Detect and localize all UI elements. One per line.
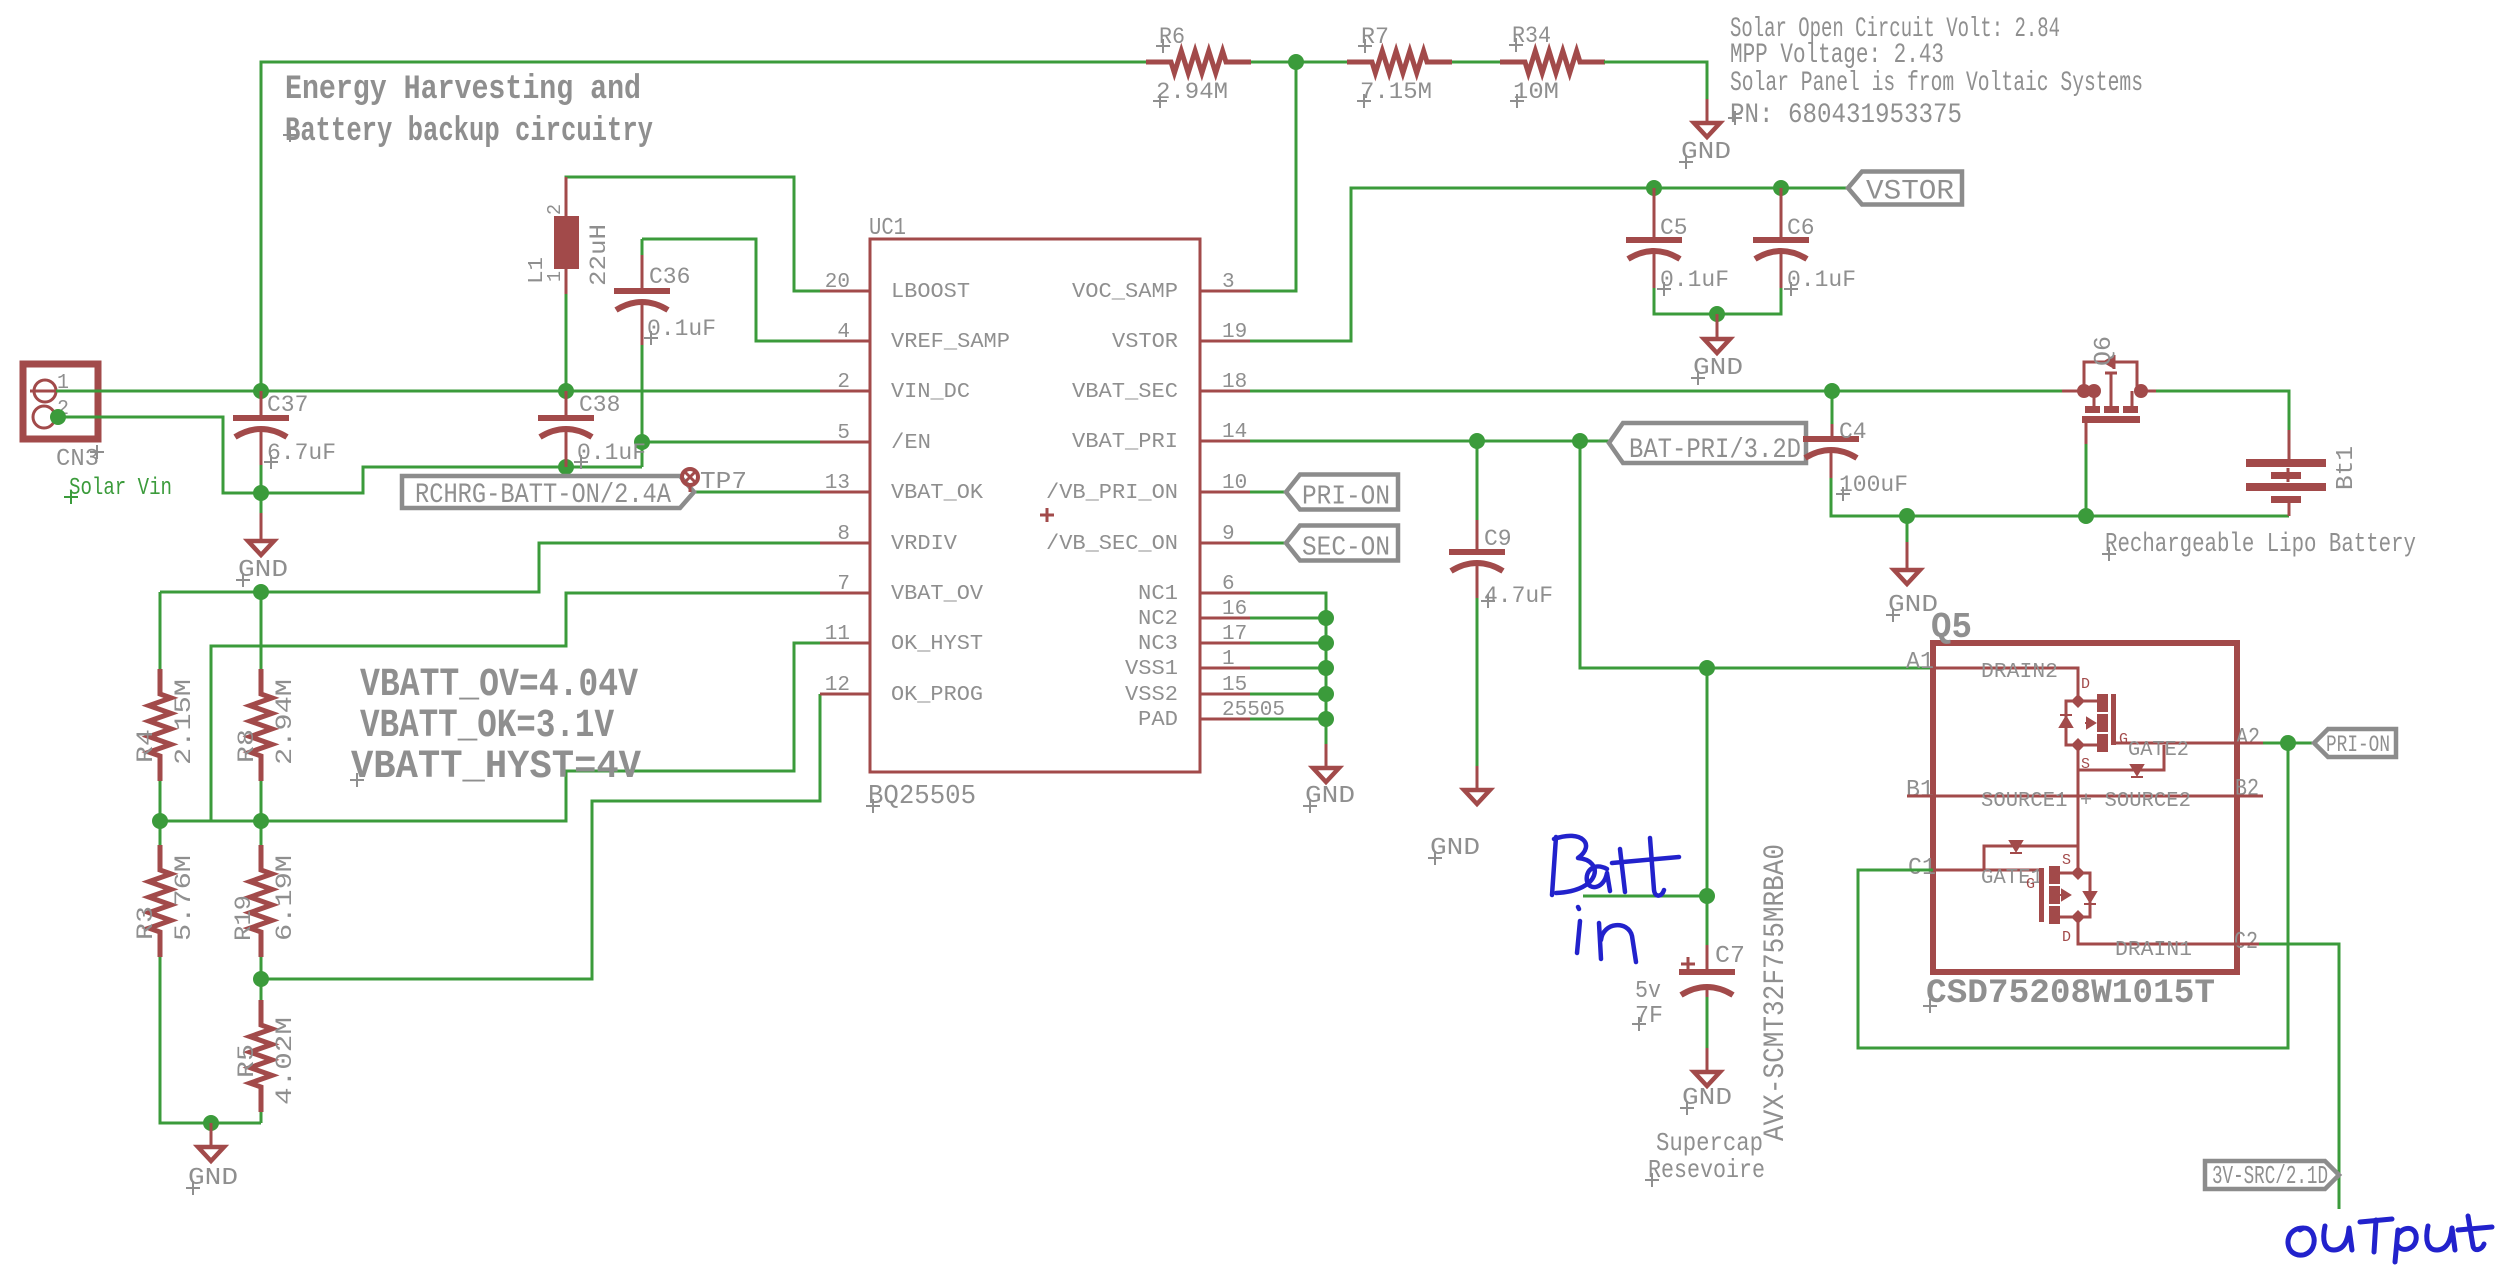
svg-text:VBAT_SEC: VBAT_SEC [1072, 381, 1178, 404]
ic U1 BQ25505 body [870, 239, 1200, 772]
capacitor C9 [1476, 441, 1479, 549]
wire DRAIN1 out [2237, 943, 2259, 946]
wire VBAT_OK [683, 491, 820, 494]
wire C5-C6 bottom [1654, 288, 1781, 314]
capacitor C7 supercap [1706, 945, 1709, 969]
pin 6 NC1 [1200, 592, 1250, 595]
junction R19/R5 [253, 971, 269, 987]
svg-text:VSS1: VSS1 [1125, 658, 1178, 681]
svg-text:VOC_SAMP: VOC_SAMP [1072, 281, 1178, 304]
pin 14 VBAT_PRI [1200, 440, 1250, 443]
ground GND top right [1694, 123, 1720, 137]
junction C37 top [253, 383, 269, 399]
svg-text:1: 1 [544, 271, 566, 282]
svg-text:GND: GND [188, 1165, 238, 1192]
pin 4 VREF_SAMP [820, 340, 870, 343]
wire VSTOR net [1250, 188, 1848, 341]
capacitor C4 [1831, 391, 1834, 436]
svg-text:B2: B2 [2235, 776, 2259, 803]
svg-text:VRDIV: VRDIV [891, 533, 957, 556]
svg-text:2.94M: 2.94M [1156, 79, 1228, 105]
svg-text:16: 16 [1222, 598, 1247, 621]
svg-text:Battery backup circuitry: Battery backup circuitry [285, 113, 653, 151]
svg-text:NC2: NC2 [1138, 608, 1178, 631]
net label PRI-ON [1286, 475, 1398, 510]
junction divider left [152, 813, 168, 829]
wire VRDIV route [160, 543, 820, 592]
pin 12 OK_PROG [820, 693, 870, 696]
capacitor C36 [641, 239, 644, 257]
svg-text:/VB_SEC_ON: /VB_SEC_ON [1046, 533, 1178, 556]
wire VBAT_OV route [211, 593, 820, 821]
svg-text:NC1: NC1 [1138, 583, 1178, 606]
wire supercap col [1706, 668, 1709, 945]
svg-text:PRI-ON: PRI-ON [2326, 732, 2390, 758]
junction C5C6 gnd [1709, 306, 1725, 322]
pin 17 NC3 [1200, 642, 1250, 645]
svg-text:14: 14 [1222, 421, 1247, 444]
svg-text:PRI-ON: PRI-ON [1302, 483, 1390, 513]
svg-text:4.7uF: 4.7uF [1484, 583, 1553, 609]
wire solar net top [261, 62, 1146, 391]
net label 3V-SRC/2.1D [2205, 1161, 2339, 1189]
svg-text:13: 13 [825, 472, 850, 495]
wire solar- run [58, 417, 642, 493]
svg-text:3: 3 [1222, 271, 1235, 294]
handwriting in [1577, 907, 1636, 962]
svg-text:VSTOR: VSTOR [1112, 331, 1178, 354]
transistor Q5 fet1 bottom [1933, 869, 2039, 872]
junction bottom gnd node [203, 1115, 219, 1131]
svg-text:SEC-ON: SEC-ON [1302, 534, 1390, 564]
capacitor C38 [565, 391, 568, 415]
svg-text:C5: C5 [1660, 215, 1688, 241]
svg-text:10: 10 [1222, 472, 1247, 495]
svg-text:C7: C7 [1715, 943, 1745, 970]
inductor L1 [565, 177, 568, 216]
wire R34 to gnd corner [1604, 62, 1707, 101]
handwriting output [2288, 1216, 2492, 1262]
svg-text:8: 8 [837, 523, 850, 546]
svg-text:22uH: 22uH [586, 224, 612, 286]
svg-text:D: D [2062, 929, 2071, 946]
junction gnd mid [1899, 508, 1915, 524]
svg-text:9: 9 [1222, 523, 1235, 546]
svg-text:12: 12 [825, 674, 850, 697]
svg-text:R7: R7 [1361, 24, 1389, 50]
junction node R6/R7/VOC_SAMP [1288, 54, 1304, 70]
svg-text:CSD75208W1015T: CSD75208W1015T [1926, 975, 2215, 1013]
wire Q6 to battery [2156, 391, 2289, 432]
junction C6 top [1773, 180, 1789, 196]
wire R3 bottom [160, 957, 261, 1123]
net label BAT-PRI/3.2D [1609, 423, 1806, 463]
wire VB_PRI_ON [1250, 491, 1286, 494]
svg-text:G: G [2026, 876, 2035, 893]
wire R4 bottom [159, 781, 162, 821]
ground GND mid right [1894, 570, 1920, 584]
svg-text:5.76M: 5.76M [171, 855, 197, 941]
svg-text:OK_HYST: OK_HYST [891, 633, 983, 656]
svg-text:GND: GND [1682, 1085, 1732, 1112]
svg-text:GND: GND [1681, 139, 1731, 166]
svg-text:2: 2 [544, 204, 566, 215]
resistor R6 [1146, 51, 1251, 73]
svg-text:BAT-PRI/3.2D: BAT-PRI/3.2D [1629, 435, 1801, 466]
svg-text:MPP Voltage: 2.43: MPP Voltage: 2.43 [1730, 40, 1944, 71]
svg-text:VIN_DC: VIN_DC [891, 381, 970, 404]
pin 1 VSS1 [1200, 667, 1250, 670]
ground GND under C7 [1694, 1072, 1720, 1086]
svg-text:UC1: UC1 [869, 215, 906, 242]
svg-text:/EN: /EN [891, 432, 931, 455]
resistor R19 [260, 821, 263, 845]
svg-text:NC3: NC3 [1138, 633, 1178, 656]
svg-text:6.19M: 6.19M [272, 855, 298, 941]
testpoint TP7 [689, 484, 692, 492]
svg-text:VBATT_OK=3.1V: VBATT_OK=3.1V [360, 704, 614, 749]
svg-text:AVX-SCMT32F755MRBA0: AVX-SCMT32F755MRBA0 [1759, 844, 1793, 1141]
svg-text:Resevoire: Resevoire [1648, 1155, 1765, 1185]
svg-text:4.02M: 4.02M [272, 1017, 298, 1105]
resistor R4 [149, 669, 171, 781]
wire C4 bottom run [1831, 478, 2289, 516]
capacitor C6 [1780, 188, 1783, 237]
svg-text:VBAT_PRI: VBAT_PRI [1072, 431, 1178, 454]
wire NC2 [1250, 617, 1326, 620]
gnd stub top right [1706, 99, 1709, 123]
transistor Q6 [2062, 390, 2078, 393]
wire R4 col [159, 592, 162, 669]
pin 5 /EN [820, 441, 870, 444]
wire R8 bottom [260, 781, 263, 821]
svg-text:S: S [2062, 852, 2071, 869]
svg-text:C37: C37 [267, 392, 308, 418]
wire SOURCE row [1907, 795, 2263, 798]
resistor R8 [250, 669, 272, 781]
wire VSS2 [1250, 693, 1326, 696]
wire C7 bottom [1706, 997, 1709, 1048]
junction C37 bottom [253, 485, 269, 501]
svg-text:15: 15 [1222, 674, 1247, 697]
wire VOC_SAMP [1250, 62, 1296, 291]
pin A2 stub [2237, 742, 2263, 745]
svg-text:C9: C9 [1484, 526, 1512, 552]
wire R8 col [260, 592, 263, 669]
ground GND under C9 [1476, 766, 1479, 790]
junction BAT-PRI branch [1572, 433, 1588, 449]
junction NC3 [1318, 635, 1334, 651]
junction C38 bottom [558, 459, 574, 475]
wire R19 bottom [260, 957, 263, 979]
svg-text:D: D [2081, 676, 2090, 693]
junction EN node [634, 434, 650, 450]
connector CN3 [23, 364, 98, 439]
svg-text:R6: R6 [1159, 24, 1185, 50]
wire VBAT_PRI [1250, 440, 1609, 443]
wire NC3 [1250, 642, 1326, 645]
svg-text:B1: B1 [1906, 777, 1934, 804]
wire BAT-PRI to Q5 [1580, 441, 1933, 668]
svg-text:RCHRG-BATT-ON/2.4A: RCHRG-BATT-ON/2.4A [415, 480, 671, 511]
wire L1 top loop [566, 177, 820, 291]
svg-text:DRAIN1: DRAIN1 [2115, 939, 2192, 962]
svg-text:Bt1: Bt1 [2333, 446, 2360, 490]
pin 19 VSTOR [1200, 340, 1250, 343]
junction C9 top [1469, 433, 1485, 449]
pin 10 /VB_PRI_ON [1200, 491, 1250, 494]
svg-text:GND: GND [1430, 835, 1480, 862]
junction supercap branch [1699, 660, 1715, 676]
handwriting Batt [1552, 836, 1679, 896]
wire C36 bottom [641, 345, 644, 442]
svg-text:VSTOR: VSTOR [1866, 177, 1954, 208]
wire R5 bottom [260, 1112, 263, 1123]
pin 25505 PAD [1200, 718, 1250, 721]
pin 13 VBAT_OK [820, 491, 870, 494]
svg-text:GATE2: GATE2 [2128, 739, 2189, 762]
resistor R34 [1500, 51, 1605, 73]
svg-text:17: 17 [1222, 623, 1247, 646]
svg-text:10M: 10M [1513, 79, 1559, 105]
svg-text:19: 19 [1222, 321, 1247, 344]
svg-text:7F: 7F [1635, 1003, 1663, 1030]
svg-text:VBATT_HYST=4V: VBATT_HYST=4V [351, 745, 641, 790]
junction C5 top [1646, 180, 1662, 196]
junction C38 top [558, 383, 574, 399]
junction CN3 pin2 [50, 409, 66, 425]
junction C4 top [1824, 383, 1840, 399]
wire VB_SEC_ON [1250, 542, 1286, 545]
svg-text:C6: C6 [1787, 215, 1815, 241]
net label SEC-ON [1286, 526, 1398, 561]
svg-text:7: 7 [837, 573, 850, 596]
svg-text:A1: A1 [1906, 649, 1934, 676]
resistor R5 [260, 979, 263, 1000]
junction VSS2 [1318, 686, 1334, 702]
svg-text:2.15M: 2.15M [171, 679, 197, 765]
net label RCHRG-BATT-ON/2.4A [402, 476, 694, 508]
svg-text:Solar Panel is from Voltaic Sy: Solar Panel is from Voltaic Systems [1730, 68, 2143, 99]
svg-text:PAD: PAD [1138, 709, 1178, 732]
label battery [2102, 547, 2116, 561]
pin 15 VSS2 [1200, 693, 1250, 696]
svg-text:G: G [2119, 731, 2128, 748]
svg-text:R8: R8 [234, 729, 260, 763]
svg-text:/VB_PRI_ON: /VB_PRI_ON [1046, 482, 1178, 505]
wire VIN_DC net [56, 390, 820, 393]
junction PAD [1318, 711, 1334, 727]
wire VSS1 [1250, 667, 1326, 670]
wire OK_HYST route [160, 643, 820, 821]
wire C36 top loop [642, 239, 820, 341]
svg-text:SOURCE1 + SOURCE2: SOURCE1 + SOURCE2 [1981, 790, 2191, 813]
svg-text:R19: R19 [231, 895, 257, 941]
svg-text:VBAT_OV: VBAT_OV [891, 583, 983, 606]
svg-text:GND: GND [238, 557, 288, 584]
svg-text:VREF_SAMP: VREF_SAMP [891, 331, 1010, 354]
capacitor C5 [1653, 188, 1656, 237]
wire R7-R34 [1452, 61, 1500, 64]
svg-text:Solar Vin: Solar Vin [69, 475, 172, 502]
svg-text:18: 18 [1222, 371, 1247, 394]
svg-text:Q5: Q5 [1931, 607, 1972, 648]
svg-text:LBOOST: LBOOST [891, 281, 970, 304]
svg-text:20: 20 [825, 271, 850, 294]
pin 8 VRDIV [820, 542, 870, 545]
ground GND under PAD [1313, 768, 1339, 782]
svg-text:GND: GND [1305, 783, 1355, 810]
junction batt-in [1699, 888, 1715, 904]
svg-text:6: 6 [1222, 573, 1235, 596]
pin B1 stub [1907, 795, 1933, 798]
svg-text:DRAIN2: DRAIN2 [1981, 661, 2058, 684]
svg-text:R5: R5 [234, 1044, 260, 1078]
svg-text:Energy Harvesting and: Energy Harvesting and [285, 71, 641, 109]
svg-text:Rechargeable Lipo Battery: Rechargeable Lipo Battery [2105, 530, 2416, 560]
svg-text:5: 5 [837, 422, 850, 445]
wire gate loop [1858, 743, 2288, 1048]
svg-text:VSS2: VSS2 [1125, 684, 1178, 707]
gnd stub mid [1906, 516, 1909, 544]
svg-text:VBAT_OK: VBAT_OK [891, 482, 983, 505]
svg-text:2.94M: 2.94M [272, 679, 298, 765]
svg-text:C4: C4 [1839, 419, 1867, 445]
pin 3 VOC_SAMP [1200, 290, 1250, 293]
ic Q5 body [1933, 643, 2237, 972]
resistor R3 [159, 821, 162, 845]
junction NC2 [1318, 610, 1334, 626]
wire EN riser [642, 442, 820, 467]
svg-text:7.15M: 7.15M [1360, 79, 1432, 105]
net label VSTOR [1848, 172, 1962, 205]
pin 18 VBAT_SEC [1200, 390, 1250, 393]
svg-text:C36: C36 [649, 264, 690, 290]
junction PRI-ON loop [2280, 735, 2296, 751]
ground GND under C37 [248, 541, 274, 555]
ground GND under C5 C6 [1704, 339, 1730, 353]
wire A2 to PRI-ON [2263, 742, 2312, 745]
svg-text:1: 1 [1222, 648, 1235, 671]
gnd stub C5C6 [1716, 314, 1719, 339]
svg-text:R4: R4 [133, 729, 159, 763]
wire C38 bottom [565, 437, 568, 467]
svg-text:OK_PROG: OK_PROG [891, 684, 983, 707]
junction R8 top [253, 584, 269, 600]
pin 2 VIN_DC [820, 390, 870, 393]
wire C9 bottom [1476, 598, 1479, 790]
capacitor C37 [260, 391, 263, 415]
svg-text:BQ25505: BQ25505 [868, 782, 976, 812]
resistor R7 [1347, 51, 1452, 73]
wire VBAT_SEC [1250, 390, 2062, 393]
gnd stub pad [1325, 744, 1328, 768]
wire L1 bottom [565, 294, 568, 391]
svg-text:5v: 5v [1635, 978, 1661, 1005]
svg-text:TP7: TP7 [700, 469, 747, 496]
svg-text:3V-SRC/2.1D: 3V-SRC/2.1D [2212, 1161, 2328, 1191]
ground GND bottom left [198, 1147, 224, 1161]
svg-text:R3: R3 [133, 906, 159, 940]
svg-text:C38: C38 [579, 392, 620, 418]
svg-text:VBATT_OV=4.04V: VBATT_OV=4.04V [360, 663, 638, 708]
gnd stub bottom left [210, 1123, 213, 1147]
svg-text:CN3: CN3 [56, 446, 99, 473]
pin 16 NC2 [1200, 617, 1250, 620]
wire Q6 source col [2085, 442, 2088, 516]
svg-text:2: 2 [837, 371, 850, 394]
wire batt-in stub [1583, 895, 1707, 898]
transistor Q5 fet2 top [1933, 668, 2078, 701]
pin 11 OK_HYST [820, 642, 870, 645]
junction VSS1 [1318, 660, 1334, 676]
junction Q6 source [2078, 508, 2094, 524]
svg-text:Supercap: Supercap [1656, 1128, 1763, 1158]
svg-text:R34: R34 [1512, 23, 1551, 49]
battery Bt1 [2288, 430, 2291, 460]
net label PRI-ON right [2314, 729, 2396, 757]
label Solar Vin [64, 490, 78, 504]
pin 20 LBOOST [820, 290, 870, 293]
wire R6-R7 [1251, 61, 1347, 64]
junction divider right [253, 813, 269, 829]
svg-text:PN: 680431953375: PN: 680431953375 [1730, 100, 1962, 131]
pin 9 /VB_SEC_ON [1200, 542, 1250, 545]
pin 7 VBAT_OV [820, 592, 870, 595]
svg-text:Q6: Q6 [2091, 336, 2118, 366]
svg-text:11: 11 [825, 623, 850, 646]
svg-text:A2: A2 [2236, 725, 2260, 752]
wire OK_PROG route [261, 694, 820, 979]
wire PAD [1250, 718, 1326, 721]
svg-text:4: 4 [837, 321, 850, 344]
wire NC1 [1250, 593, 1326, 746]
svg-text:GND: GND [1693, 355, 1743, 382]
